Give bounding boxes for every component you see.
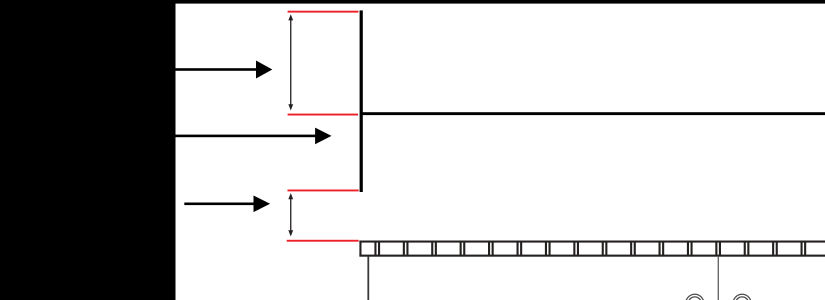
ribbed band: left edge: [359, 241, 361, 257]
dimension arrow (lower, double-headed): [288, 193, 293, 237]
ribbed band: bottom chord: [359, 255, 825, 257]
big arrow 3: [184, 196, 270, 213]
big arrow 1: [176, 61, 273, 79]
top slab line: [175, 0, 825, 4]
big arrow 2: [176, 128, 332, 145]
ribbed band: top chord: [359, 241, 825, 243]
hanger line left: [367, 256, 369, 300]
ribbed band: rib dividers: [374, 241, 376, 257]
duct circle right: [733, 294, 751, 300]
dimension arrow (upper, double-headed): [288, 14, 293, 110]
horizontal slab line: [361, 112, 825, 115]
red level line D: [287, 240, 359, 242]
wall section (solid black): [0, 0, 176, 300]
red level line A: [288, 11, 359, 13]
red level line B: [288, 114, 358, 116]
vertical edge line: [360, 10, 363, 192]
hanger line right: [718, 256, 719, 300]
red level line C: [288, 190, 359, 192]
duct circle left: [686, 294, 704, 300]
